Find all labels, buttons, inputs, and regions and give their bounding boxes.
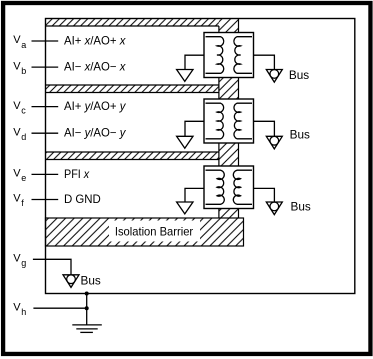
- bus symbol 2: [266, 136, 282, 149]
- svg-text:a: a: [21, 40, 26, 50]
- svg-text:V: V: [13, 100, 21, 112]
- svg-text:AI− y/AO− y: AI− y/AO− y: [64, 127, 127, 140]
- svg-text:d: d: [21, 132, 26, 142]
- svg-text:AI+ x/AO+ x: AI+ x/AO+ x: [64, 34, 127, 47]
- svg-text:Bus: Bus: [291, 200, 311, 214]
- T2 primary winding: [206, 103, 224, 139]
- svg-text:V: V: [13, 34, 21, 46]
- wire T2 left to isolated ground: [185, 121, 204, 136]
- wire T1 right to bus: [254, 55, 275, 69]
- bus symbol 1: [266, 70, 282, 83]
- svg-text:V: V: [13, 126, 21, 138]
- isolated ground triangle 1: [177, 70, 193, 82]
- svg-text:e: e: [21, 173, 26, 183]
- wire Va stub: [32, 40, 59, 42]
- T1 primary winding: [206, 37, 224, 74]
- wire Vh stub: [33, 307, 86, 309]
- wire T2 right to bus: [254, 121, 275, 136]
- earth ground: [72, 325, 102, 333]
- svg-text:g: g: [21, 258, 26, 268]
- hatched bar 1 (top): [46, 19, 219, 26]
- svg-text:PFI x: PFI x: [64, 168, 90, 181]
- wire T3 right to bus: [254, 188, 275, 202]
- svg-text:AI− x/AO− x: AI− x/AO− x: [64, 61, 127, 74]
- isolation barrier vertical hatched strip: [219, 19, 239, 219]
- bus symbol Vg: [63, 275, 79, 288]
- T1 secondary winding: [234, 37, 252, 74]
- svg-text:AI+ y/AO+ y: AI+ y/AO+ y: [64, 100, 127, 113]
- svg-text:b: b: [21, 66, 26, 76]
- isolated ground triangle 3: [177, 202, 193, 214]
- junction Vh: [85, 306, 89, 310]
- wire Ve stub: [32, 173, 59, 175]
- wire T1 left to isolated ground: [185, 55, 204, 69]
- wire T3 left to isolated ground: [185, 188, 204, 202]
- svg-text:Bus: Bus: [289, 68, 309, 82]
- svg-text:Bus: Bus: [290, 128, 310, 142]
- wire Vc stub: [32, 106, 59, 108]
- hatched bar 3: [46, 152, 219, 160]
- transformer T2: [204, 99, 254, 143]
- isolation barrier label: [109, 221, 200, 242]
- T3 secondary winding: [233, 170, 252, 204]
- svg-text:D GND: D GND: [64, 193, 101, 206]
- transformer T3: [204, 166, 254, 209]
- wire chassis to earth ground: [86, 294, 88, 325]
- wire Vf stub: [32, 199, 59, 201]
- svg-text:V: V: [13, 193, 21, 205]
- wire Vg to bus: [33, 259, 71, 275]
- svg-text:V: V: [13, 253, 21, 265]
- svg-text:V: V: [13, 168, 21, 180]
- svg-text:h: h: [21, 307, 26, 317]
- hatched bar 4 (isolation barrier, thick): [46, 218, 244, 246]
- wire Vd stub: [32, 132, 59, 134]
- transformer T1: [204, 33, 254, 78]
- bus symbol 3: [266, 202, 282, 215]
- T2 secondary winding: [234, 103, 252, 139]
- junction on chassis bottom: [85, 292, 89, 296]
- svg-text:V: V: [13, 301, 21, 313]
- svg-text:Bus: Bus: [81, 274, 101, 288]
- svg-text:V: V: [13, 60, 21, 72]
- hatched bar 2: [46, 85, 219, 93]
- wire Vb stub: [32, 66, 59, 68]
- T3 primary winding: [206, 170, 225, 204]
- svg-text:Isolation Barrier: Isolation Barrier: [115, 226, 193, 239]
- isolated ground triangle 2: [177, 136, 193, 148]
- svg-text:c: c: [21, 105, 26, 115]
- chassis rectangle: [46, 19, 355, 294]
